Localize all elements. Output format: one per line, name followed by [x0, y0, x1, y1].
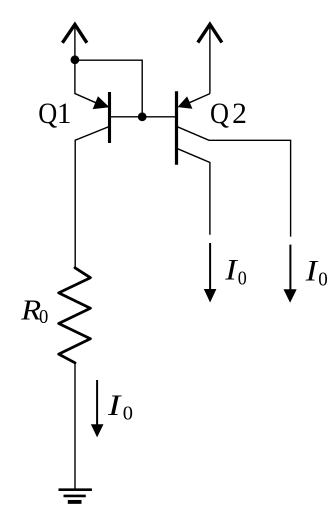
- current arrow I0 (output 2): [289, 245, 291, 290]
- supply arrow (top-right, to V+): [198, 24, 222, 93]
- transistor Q1 (PNP) base bar: [108, 92, 111, 143]
- current arrow I0 (at resistor): [96, 380, 98, 425]
- svg-text:I: I: [224, 254, 238, 286]
- transistor Q2 emitter wire: [189, 94, 210, 103]
- svg-text:Q: Q: [210, 98, 229, 130]
- node: base junction dot: [138, 112, 147, 121]
- svg-text:I: I: [107, 390, 122, 422]
- svg-text:0: 0: [39, 306, 48, 328]
- svg-text:Q: Q: [38, 98, 57, 130]
- svg-text:0: 0: [123, 403, 133, 425]
- svg-text:0: 0: [318, 269, 328, 291]
- wire: emitter node to base node: [75, 60, 142, 117]
- transistor Q2 collector 2 wire: [178, 149, 210, 235]
- transistor Q2 emitter arrowhead: [178, 97, 191, 108]
- svg-text:0: 0: [238, 268, 247, 290]
- ground: [59, 490, 92, 502]
- svg-text:2: 2: [232, 98, 247, 130]
- transistor Q1 collector wire: [75, 126, 110, 268]
- resistor R0 zigzag: [59, 268, 91, 363]
- supply arrow (top-left, to V+): [62, 24, 87, 59]
- svg-text:I: I: [304, 256, 318, 288]
- wire: resistor to ground: [74, 363, 76, 490]
- transistor Q2 (PNP, dual collector) base bar: [175, 91, 178, 164]
- transistor Q1 emitter wire: [75, 60, 96, 103]
- current arrow I0 (output 1): [209, 243, 211, 290]
- transistor Q2 collector 1 wire: [178, 127, 291, 237]
- node: Q1 emitter junction dot: [71, 55, 80, 64]
- transistor Q1 emitter arrowhead: [93, 97, 108, 109]
- wire: base rail Q1 to Q2: [110, 116, 177, 118]
- svg-text:1: 1: [57, 98, 72, 130]
